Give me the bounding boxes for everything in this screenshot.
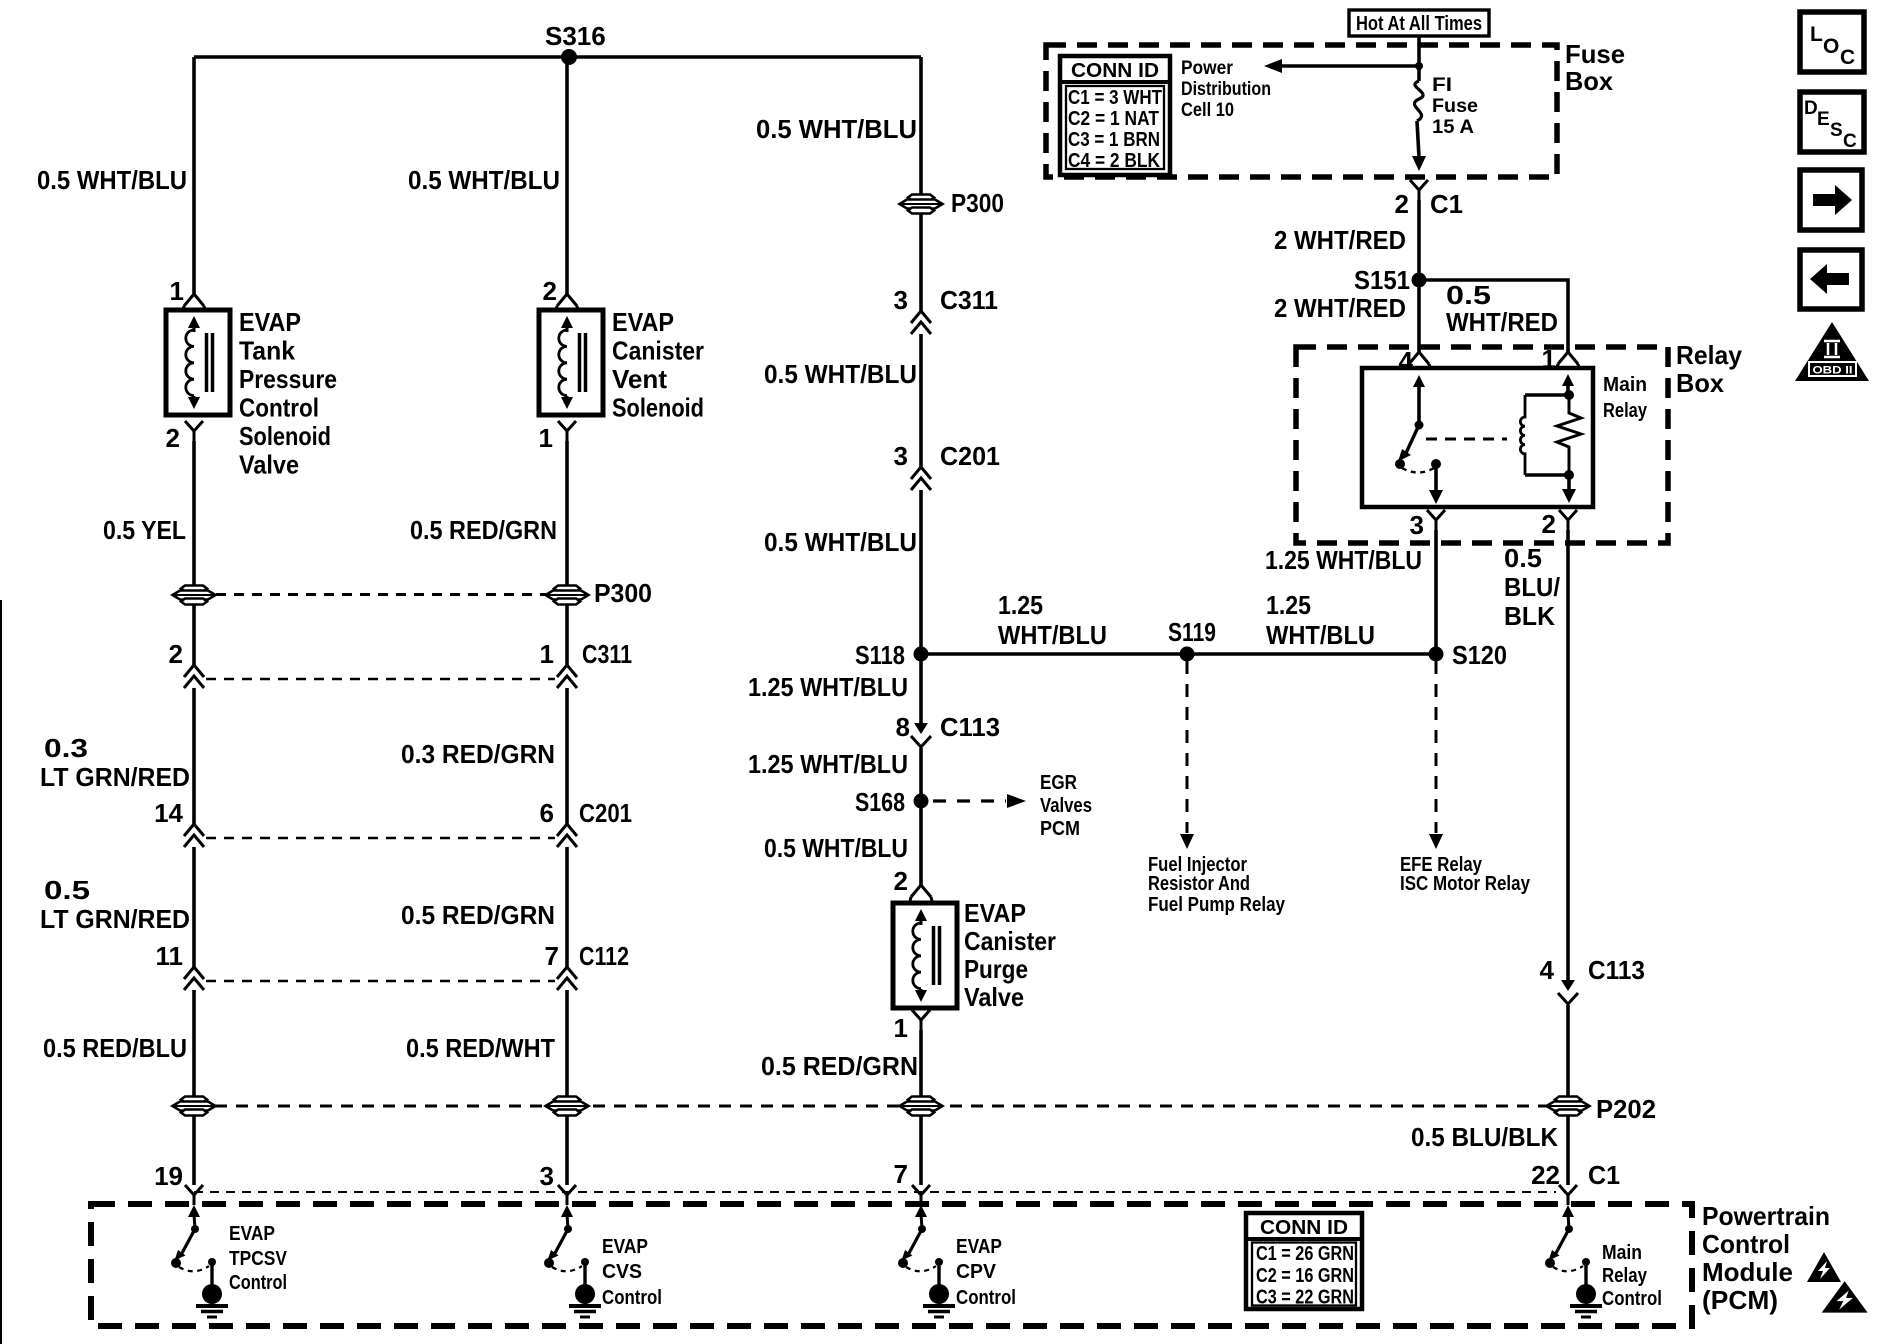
wire to S151: [1417, 200, 1421, 280]
relay contact dashed throw: [1402, 468, 1434, 473]
svg-text:0.5 WHT/BLU: 0.5 WHT/BLU: [37, 165, 187, 195]
svg-text:S120: S120: [1452, 640, 1507, 670]
CONN ID table fusebox: [1060, 56, 1170, 175]
svg-text:22: 22: [1531, 1160, 1560, 1190]
junction dot at arrow takeoff: [1415, 62, 1423, 70]
svg-text:Control: Control: [1702, 1229, 1790, 1259]
Hot At All Times tag: [1349, 10, 1489, 36]
PCM driver switch EVAP CVS Control: [544, 1205, 601, 1317]
dashed link C311: [206, 678, 555, 681]
dashed link P202 row: [215, 1105, 1547, 1108]
svg-text:CVS: CVS: [602, 1261, 642, 1283]
wire: [1566, 1005, 1570, 1096]
svg-text:Hot At All Times: Hot At All Times: [1356, 13, 1482, 35]
grommet P202 col2: [546, 1097, 589, 1116]
svg-text:WHT/BLU: WHT/BLU: [998, 620, 1107, 650]
Relay Box dashed enclosure: [1296, 347, 1668, 543]
dashed link C112: [206, 980, 555, 983]
svg-text:14: 14: [154, 798, 183, 828]
svg-text:PCM: PCM: [1040, 818, 1080, 840]
svg-text:C1: C1: [1588, 1160, 1620, 1190]
svg-text:0.5 RED/GRN: 0.5 RED/GRN: [401, 900, 555, 930]
svg-text:Canister: Canister: [612, 336, 704, 366]
svg-text:LT GRN/RED: LT GRN/RED: [40, 762, 190, 792]
svg-text:0.5: 0.5: [1446, 280, 1491, 310]
wire: [192, 1116, 196, 1185]
connector 2 C1 below fuse box: [1410, 180, 1428, 200]
svg-text:0.5 WHT/BLU: 0.5 WHT/BLU: [756, 114, 917, 144]
relay switch arm: [1413, 375, 1425, 387]
svg-text:1.25 WHT/BLU: 1.25 WHT/BLU: [748, 749, 908, 779]
svg-text:6: 6: [540, 798, 554, 828]
wire: [192, 688, 196, 824]
svg-text:S168: S168: [855, 787, 905, 817]
EVAP Canister Purge Valve U-col3: [893, 903, 957, 1008]
left arrow nav icon: [1800, 250, 1862, 309]
ESD triangle large: [1822, 1281, 1868, 1313]
svg-text:OBD II: OBD II: [1813, 365, 1853, 377]
PCM driver switch Main Relay Control: [1545, 1205, 1602, 1317]
svg-text:2 WHT/RED: 2 WHT/RED: [1274, 225, 1406, 255]
svg-text:EVAP: EVAP: [239, 307, 301, 337]
svg-text:EVAP: EVAP: [956, 1236, 1002, 1258]
scan edge artifact left: [0, 600, 2, 1344]
wire col1 from bus to pin1 of TPCSV: [192, 57, 196, 294]
svg-text:Power: Power: [1181, 58, 1234, 79]
arrow to power distribution: [1281, 64, 1419, 68]
svg-text:0.5 WHT/BLU: 0.5 WHT/BLU: [764, 527, 917, 557]
svg-text:0.3: 0.3: [44, 733, 88, 763]
svg-text:0.5 RED/BLU: 0.5 RED/BLU: [43, 1033, 187, 1063]
wire mid bus S118 to S120: [921, 652, 1436, 656]
PCM driver switch EVAP CPV Control: [898, 1205, 955, 1317]
svg-text:1.25 WHT/BLU: 1.25 WHT/BLU: [1265, 545, 1422, 575]
svg-text:Solenoid: Solenoid: [239, 421, 331, 451]
svg-text:P300: P300: [951, 188, 1004, 218]
wire: [919, 801, 923, 885]
svg-text:C201: C201: [940, 441, 1000, 471]
svg-text:3: 3: [540, 1161, 554, 1191]
svg-text:0.3 RED/GRN: 0.3 RED/GRN: [401, 739, 555, 769]
svg-text:2: 2: [543, 276, 557, 306]
svg-text:Valve: Valve: [239, 450, 299, 480]
svg-text:P300: P300: [594, 578, 652, 608]
Fuse Box dashed enclosure: [1046, 45, 1557, 177]
svg-text:TPCSV: TPCSV: [229, 1248, 288, 1270]
svg-text:Tank: Tank: [239, 336, 296, 366]
grommet P202 col3: [900, 1097, 943, 1116]
svg-text:3: 3: [894, 441, 908, 471]
svg-text:0.5: 0.5: [44, 875, 90, 905]
svg-text:C113: C113: [1588, 955, 1645, 985]
svg-text:19: 19: [154, 1161, 183, 1191]
svg-text:BLU/: BLU/: [1504, 572, 1560, 602]
EVAP Canister Vent Solenoid U-col2: [539, 310, 603, 415]
relay pin2 internal lead: [1567, 475, 1571, 490]
svg-text:C112: C112: [579, 941, 629, 971]
svg-text:C4 = 2 BLK: C4 = 2 BLK: [1068, 150, 1160, 172]
svg-text:3: 3: [1410, 510, 1424, 540]
svg-text:Distribution: Distribution: [1181, 79, 1271, 100]
svg-text:Resistor And: Resistor And: [1148, 873, 1250, 895]
svg-text:S118: S118: [855, 640, 905, 670]
pin 1: [912, 1010, 930, 1030]
svg-text:0.5 YEL: 0.5 YEL: [103, 515, 186, 545]
svg-text:3: 3: [894, 285, 908, 315]
svg-text:Relay: Relay: [1602, 1265, 1648, 1287]
svg-text:Control: Control: [1602, 1288, 1662, 1310]
svg-text:1.25: 1.25: [998, 590, 1043, 620]
svg-text:WHT/RED: WHT/RED: [1446, 307, 1558, 337]
node S118: [914, 647, 929, 662]
relay output to pin 3: [1434, 464, 1438, 491]
svg-text:BLK: BLK: [1504, 601, 1555, 631]
wire top bus from col1 to col3: [194, 55, 921, 59]
svg-text:2: 2: [1395, 189, 1409, 219]
CONN ID table PCM: [1246, 1213, 1362, 1309]
svg-text:1: 1: [540, 639, 554, 669]
svg-text:8: 8: [896, 712, 910, 742]
EVAP Tank Pressure Control Solenoid Valve U-col1: [166, 310, 230, 415]
svg-text:0.5 RED/GRN: 0.5 RED/GRN: [761, 1051, 918, 1081]
svg-text:Fuse: Fuse: [1432, 96, 1478, 117]
svg-text:C311: C311: [940, 285, 998, 315]
wire col2 from bus to pin2 of CVS: [565, 57, 569, 294]
wire below S118: [919, 654, 923, 723]
dashed drop S120 to EFE relay: [1435, 661, 1438, 833]
svg-text:EGR: EGR: [1040, 772, 1077, 794]
svg-text:Valves: Valves: [1040, 795, 1092, 817]
svg-text:S316: S316: [545, 21, 606, 51]
wire: [919, 748, 923, 801]
svg-text:C: C: [1840, 46, 1855, 69]
svg-text:0.5 RED/GRN: 0.5 RED/GRN: [410, 515, 557, 545]
svg-text:1: 1: [894, 1013, 908, 1043]
svg-text:S: S: [1830, 120, 1843, 141]
svg-text:FI: FI: [1432, 75, 1452, 96]
svg-text:Cell 10: Cell 10: [1181, 100, 1234, 121]
wire: [192, 605, 196, 665]
svg-text:Pressure: Pressure: [239, 364, 337, 394]
svg-text:S119: S119: [1168, 617, 1216, 647]
wire feed from hot tag: [1417, 36, 1421, 81]
svg-text:Powertrain: Powertrain: [1702, 1201, 1830, 1231]
svg-text:C1 = 3 WHT: C1 = 3 WHT: [1068, 87, 1162, 109]
grommet P202 col4: [1547, 1097, 1590, 1116]
wire: [1566, 1116, 1570, 1185]
svg-text:C1 = 26 GRN: C1 = 26 GRN: [1256, 1243, 1354, 1265]
svg-text:7: 7: [545, 941, 559, 971]
svg-text:LT GRN/RED: LT GRN/RED: [40, 904, 190, 934]
svg-text:0.5 WHT/BLU: 0.5 WHT/BLU: [764, 359, 917, 389]
svg-text:S151: S151: [1354, 265, 1410, 295]
wire relay pin3 to S120: [1434, 530, 1438, 654]
svg-text:1.25: 1.25: [1266, 590, 1311, 620]
svg-text:15 A: 15 A: [1432, 117, 1474, 138]
dashed arrow S168 to EGR: [933, 799, 1006, 802]
DESC nav icon: [1800, 92, 1864, 152]
relay actuate dashed link: [1426, 438, 1507, 441]
svg-text:C201: C201: [579, 798, 632, 828]
grommet P202 col1: [173, 1097, 216, 1116]
svg-text:Control: Control: [956, 1287, 1016, 1309]
svg-text:C: C: [1843, 131, 1857, 152]
svg-text:EVAP: EVAP: [229, 1223, 275, 1245]
node S168: [914, 794, 929, 809]
wire: [192, 990, 196, 1096]
dashed drop S119 to fuel injector relay: [1186, 661, 1189, 833]
svg-text:Control: Control: [602, 1287, 662, 1309]
svg-text:1: 1: [539, 423, 553, 453]
svg-text:O: O: [1823, 35, 1839, 58]
wire: [565, 847, 569, 967]
wire: [919, 214, 923, 311]
grommet P300 col1: [173, 586, 216, 605]
wire: [192, 847, 196, 967]
svg-text:1: 1: [170, 276, 184, 306]
wire: [565, 605, 569, 665]
wire: [919, 334, 923, 467]
svg-text:2: 2: [894, 866, 908, 896]
PCM driver switch EVAP TPCSV Control: [171, 1205, 228, 1317]
LOC nav icon: [1800, 12, 1864, 72]
svg-text:Fuel Pump Relay: Fuel Pump Relay: [1148, 894, 1286, 916]
svg-text:0.5 BLU/BLK: 0.5 BLU/BLK: [1411, 1122, 1558, 1152]
svg-text:Solenoid: Solenoid: [612, 393, 704, 423]
svg-text:Control: Control: [229, 1272, 287, 1294]
svg-text:L: L: [1810, 23, 1823, 46]
svg-text:Main: Main: [1602, 1242, 1642, 1264]
svg-text:CONN ID: CONN ID: [1260, 1217, 1348, 1239]
relay resistor: [1557, 395, 1581, 475]
node S316: [561, 49, 577, 65]
wire: [919, 490, 923, 654]
svg-text:7: 7: [894, 1159, 908, 1189]
svg-text:CONN ID: CONN ID: [1071, 60, 1159, 82]
svg-text:C1: C1: [1430, 189, 1463, 219]
OBD II icon: [1795, 322, 1869, 381]
grommet P300 col2: [546, 586, 589, 605]
relay coil: [1525, 395, 1569, 475]
svg-text:Fuse: Fuse: [1565, 39, 1625, 69]
node S151: [1412, 273, 1427, 288]
relay pin1 internal lead: [1562, 374, 1574, 386]
dashed link P300: [216, 593, 546, 596]
svg-text:0.5 WHT/BLU: 0.5 WHT/BLU: [764, 833, 908, 863]
dashed link C201: [206, 837, 555, 840]
svg-text:WHT/BLU: WHT/BLU: [1266, 620, 1375, 650]
svg-text:0.5 RED/WHT: 0.5 RED/WHT: [406, 1033, 555, 1063]
wire: [919, 1116, 923, 1185]
svg-text:Relay: Relay: [1603, 400, 1648, 422]
fuse FI 15A element: [1414, 81, 1423, 121]
wire col3 from bus to P300: [919, 57, 923, 194]
svg-text:11: 11: [156, 941, 184, 971]
svg-text:1.25 WHT/BLU: 1.25 WHT/BLU: [748, 672, 908, 702]
wire col1 pin2 to P300: [192, 441, 196, 585]
svg-text:C3 = 22 GRN: C3 = 22 GRN: [1256, 1287, 1354, 1309]
svg-text:(PCM): (PCM): [1702, 1285, 1778, 1315]
wire relay pin2 down col4: [1566, 530, 1570, 980]
svg-text:Valve: Valve: [964, 982, 1024, 1012]
svg-text:0.5: 0.5: [1504, 543, 1542, 573]
Main Relay box: [1362, 368, 1593, 507]
svg-text:C113: C113: [940, 712, 1000, 742]
svg-text:Vent: Vent: [612, 364, 667, 394]
svg-text:Canister: Canister: [964, 926, 1056, 956]
svg-text:EVAP: EVAP: [964, 898, 1026, 928]
svg-text:C2 = 1 NAT: C2 = 1 NAT: [1068, 108, 1159, 130]
svg-text:2 WHT/RED: 2 WHT/RED: [1274, 293, 1406, 323]
wire: [565, 990, 569, 1096]
svg-text:2: 2: [169, 639, 183, 669]
svg-text:ISC Motor Relay: ISC Motor Relay: [1400, 873, 1531, 895]
right arrow nav icon: [1800, 170, 1862, 230]
wire: [565, 688, 569, 824]
svg-text:Control: Control: [239, 393, 319, 423]
svg-text:Purge: Purge: [964, 954, 1028, 984]
svg-text:Module: Module: [1702, 1257, 1793, 1287]
node S119: [1180, 647, 1195, 662]
wire S151 down to relay pin 4: [1417, 280, 1421, 352]
svg-text:C3 = 1 BRN: C3 = 1 BRN: [1068, 129, 1160, 151]
svg-text:Box: Box: [1565, 66, 1614, 96]
wire: [565, 1116, 569, 1185]
wire: [919, 1030, 923, 1096]
ESD triangle small: [1807, 1252, 1841, 1282]
svg-text:Box: Box: [1676, 368, 1725, 398]
svg-text:Relay: Relay: [1676, 340, 1743, 370]
svg-text:E: E: [1817, 109, 1830, 130]
svg-text:EVAP: EVAP: [612, 307, 674, 337]
svg-text:0.5 WHT/BLU: 0.5 WHT/BLU: [408, 165, 560, 195]
svg-text:D: D: [1804, 98, 1818, 119]
PCM dashed enclosure: [91, 1204, 1692, 1326]
branch wire S151 to relay pin 1: [1419, 280, 1568, 352]
svg-text:2: 2: [1542, 509, 1556, 539]
svg-text:4: 4: [1540, 955, 1555, 985]
svg-text:C311: C311: [582, 639, 632, 669]
svg-text:Main: Main: [1603, 374, 1647, 396]
svg-text:CPV: CPV: [956, 1261, 997, 1283]
grommet P300 col3: [900, 195, 943, 214]
node S120: [1429, 647, 1444, 662]
svg-text:P202: P202: [1596, 1094, 1656, 1124]
wire: [565, 441, 569, 585]
pin 1: [558, 421, 576, 441]
svg-text:2: 2: [166, 423, 180, 453]
pin 2: [185, 421, 203, 441]
svg-text:EVAP: EVAP: [602, 1236, 648, 1258]
dashed pin header row: [194, 1191, 1556, 1193]
svg-text:C2 = 16 GRN: C2 = 16 GRN: [1256, 1265, 1354, 1287]
